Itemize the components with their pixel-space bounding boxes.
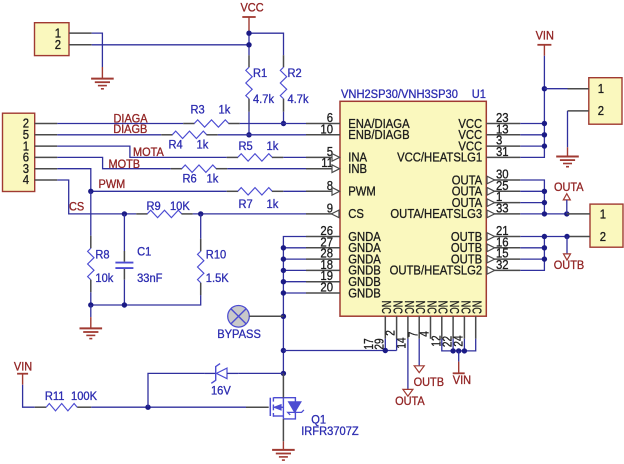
svg-text:16V: 16V	[211, 383, 232, 397]
svg-text:VIN: VIN	[453, 373, 471, 387]
J1 pin 2 stub	[69, 44, 92, 46]
wire PWM	[57, 169, 226, 192]
wire R11 to gate node	[91, 406, 246, 408]
svg-text:2: 2	[598, 103, 604, 118]
U1 NC pin stub 6	[441, 316, 443, 339]
svg-text:R1: R1	[253, 66, 267, 80]
resistor R11	[35, 406, 47, 408]
svg-text:OUTA: OUTA	[554, 180, 584, 194]
svg-text:CS: CS	[348, 206, 364, 221]
connector J1 (top-left 2-pin)	[35, 23, 70, 56]
resistor R10	[200, 239, 202, 252]
svg-text:GNDB: GNDB	[348, 285, 381, 300]
junction R1/DIAGB	[246, 132, 251, 137]
U1 NC pin stub 2	[396, 316, 398, 339]
BYPASS pin wire	[249, 315, 283, 317]
svg-text:33nF: 33nF	[137, 271, 162, 285]
U1 pin 30 OUTA	[486, 179, 520, 181]
junction GND bus/NC net	[281, 348, 286, 353]
junction OUTB flag	[564, 234, 569, 239]
resistor R8	[90, 236, 92, 249]
junction VCC bus	[542, 121, 547, 126]
VIN power flag (below U1)	[458, 362, 460, 374]
junction VCC/R2	[246, 31, 251, 36]
junction VCC bus	[542, 132, 547, 137]
svg-text:R8: R8	[95, 248, 109, 262]
junction NC22	[450, 348, 455, 353]
U1 pin 21 OUTB	[486, 236, 520, 238]
svg-text:R3: R3	[191, 102, 205, 116]
wire VCC pin branch	[520, 145, 544, 147]
Q1 source pin wire	[282, 419, 284, 441]
resistor R4	[161, 134, 172, 136]
U1 pin 15 OUTB	[486, 258, 520, 260]
svg-text:1: 1	[598, 81, 604, 96]
wire NC 17/29 net	[283, 350, 396, 352]
capacitor C1	[123, 251, 125, 262]
wire GND pin branch	[283, 269, 306, 271]
transistor Q1 IRFR3707Z	[246, 406, 269, 408]
resistor R3	[183, 123, 194, 125]
wire CS down to C1	[123, 214, 125, 251]
wire GND pin branch	[283, 247, 306, 249]
wire GND pin branch	[283, 258, 306, 260]
wire OUTB pin branch	[520, 258, 544, 260]
wire VCC down to R1	[248, 33, 250, 55]
U1 pin 11 INB	[306, 168, 340, 170]
U1 pin 31 VCC/HEATSLG1	[486, 156, 520, 158]
J2 pin stubs	[35, 123, 58, 125]
junction ground row/R8	[88, 302, 93, 307]
VCC flag wire (red)	[248, 17, 250, 33]
resistor R6	[171, 168, 182, 170]
wire CS down to R10	[200, 214, 202, 239]
diode D1 zener 16V	[204, 372, 215, 374]
wire OUTB row to J4 pin2	[520, 236, 567, 238]
resistor R2	[283, 55, 285, 67]
svg-text:R6: R6	[183, 172, 197, 186]
svg-text:R10: R10	[206, 248, 227, 262]
svg-text:OUTB: OUTB	[554, 258, 584, 272]
junction VIN branch	[456, 348, 461, 353]
U1 pin 19 GNDB	[306, 281, 340, 283]
junction GND bus/zener	[281, 371, 286, 376]
svg-text:1: 1	[600, 206, 606, 221]
svg-text:PWM: PWM	[348, 184, 376, 199]
U1 pin 16 OUTB	[486, 247, 520, 249]
junction NC24	[462, 348, 467, 353]
svg-text:1k: 1k	[219, 102, 232, 116]
J3 pin 1 stub	[568, 88, 589, 90]
U1 pin 32 OUTB/HEATSLG2	[486, 269, 520, 271]
U1 pin 13 VCC	[486, 134, 520, 136]
U1 NC pin stub 9	[475, 316, 477, 339]
junction OUTB bus top	[542, 234, 547, 239]
wire MOTB right	[227, 168, 306, 170]
junction OUTA bus	[542, 200, 547, 205]
junction OUTA flag	[564, 211, 569, 216]
svg-text:1k: 1k	[267, 197, 280, 211]
wire zener branch	[148, 373, 204, 407]
resistor R5	[227, 156, 238, 158]
ground GND1 wire (red)	[101, 67, 103, 79]
BYPASS via symbol	[228, 306, 250, 328]
U1 NC pin stub 3	[407, 316, 409, 339]
wire C1 bottom	[123, 280, 125, 305]
wire VCC bus	[520, 89, 544, 158]
wire VCC pin branch	[520, 123, 544, 125]
wire VIN down	[543, 56, 545, 89]
svg-text:R2: R2	[288, 66, 302, 80]
junction ground row/C1	[122, 302, 127, 307]
svg-text:1k: 1k	[207, 172, 220, 186]
svg-text:4.7k: 4.7k	[253, 92, 275, 106]
resistor R7	[227, 190, 238, 192]
wire DIAGB left	[57, 134, 161, 136]
U1 pin 28 GNDA	[306, 258, 340, 260]
svg-text:R9: R9	[147, 199, 161, 213]
wire DIAGA left	[57, 123, 183, 125]
svg-text:10: 10	[320, 121, 333, 136]
connector J2 (left 6-pin)	[3, 113, 35, 191]
svg-text:VCC: VCC	[241, 0, 264, 14]
svg-text:R5: R5	[239, 139, 253, 153]
junction OUTA bus	[542, 189, 547, 194]
wire OUTA pin branch	[520, 202, 544, 204]
U1 pin 27 GNDA	[306, 247, 340, 249]
ground GND2 wire	[567, 147, 569, 156]
svg-text:OUTB: OUTB	[414, 375, 444, 389]
U1 NC pin stub 8	[463, 316, 465, 339]
U1 NC pin stub 4	[418, 316, 420, 339]
U1 pin 3 VCC	[486, 145, 520, 147]
wire GND bus	[283, 237, 306, 374]
wire NC VIN net	[442, 339, 476, 351]
svg-text:1.5K: 1.5K	[206, 271, 229, 285]
svg-text:BYPASS: BYPASS	[217, 327, 261, 341]
ground GND1	[91, 78, 114, 80]
wire NC pin14 to OUTB flag	[418, 339, 420, 366]
U1 pin 33 OUTA/HEATSLG3	[486, 213, 520, 215]
junction GND bus	[281, 279, 286, 284]
svg-text:2: 2	[383, 330, 398, 336]
svg-text:2: 2	[600, 229, 606, 244]
J1 pin 1 stub	[69, 32, 92, 34]
wire R1 bottom to DIAGB row	[248, 112, 250, 135]
OUTA flag (below U1)	[403, 389, 413, 396]
svg-text:OUTB/HEATSLG2: OUTB/HEATSLG2	[390, 263, 483, 278]
wire R8 bottom	[90, 292, 92, 305]
svg-text:29: 29	[371, 338, 386, 349]
wire GND pin branch	[283, 281, 306, 283]
junction CS/R10	[198, 211, 203, 216]
ground GND2	[556, 156, 579, 158]
svg-text:100K: 100K	[71, 389, 97, 403]
U1 pin 9 CS	[306, 213, 340, 215]
svg-text:R11: R11	[45, 389, 65, 403]
wire VIN to J3 pin1	[544, 88, 567, 90]
svg-text:C1: C1	[137, 245, 151, 259]
svg-text:CS: CS	[69, 199, 84, 213]
wire VCC pin branch	[520, 134, 544, 136]
svg-text:4: 4	[23, 172, 29, 187]
junction R2/DIAGA	[281, 121, 286, 126]
U1 pin 25 OUTA	[486, 190, 520, 192]
junction NC17	[383, 348, 388, 353]
junction zener/gate	[145, 405, 150, 410]
svg-text:OUTA: OUTA	[395, 394, 425, 408]
junction CS/C1	[122, 211, 127, 216]
OUTB flag (below U1)	[414, 366, 424, 373]
U1 NC pin stub 7	[452, 316, 454, 339]
wire OUTB pin branch	[520, 247, 544, 249]
svg-text:INB: INB	[348, 161, 367, 176]
svg-text:VIN: VIN	[536, 29, 554, 43]
junction VIN node	[542, 86, 547, 91]
Q1 drain pin wire	[282, 373, 284, 397]
wire J1 pin2 to VCC node	[92, 44, 249, 46]
ground GND4 wire	[282, 441, 284, 450]
wire PWM down to R8	[90, 191, 92, 235]
J3 pin 2 stub	[568, 110, 589, 112]
wire DIAGB right	[218, 134, 306, 136]
junction VCC bus	[542, 143, 547, 148]
wire PWM right	[283, 190, 306, 192]
U1 pin 23 VCC	[486, 123, 520, 125]
svg-text:20: 20	[320, 280, 333, 295]
resistor R1	[248, 55, 250, 67]
svg-text:14: 14	[393, 337, 408, 348]
U1 pin 1 OUTA	[486, 202, 520, 204]
U1 pin 5 INA	[306, 156, 340, 158]
wire J1 pin1 to ground	[92, 33, 103, 67]
wire CS right	[193, 213, 306, 215]
U1 pin 6 ENA/DIAGA	[306, 123, 340, 125]
ground GND3 wire	[90, 305, 92, 317]
wire MOTA	[57, 146, 226, 157]
U1 pin 20 GNDB	[306, 292, 340, 294]
junction OUTA bus bottom	[542, 211, 547, 216]
svg-text:PWM: PWM	[99, 177, 126, 191]
junction PWM/R8	[88, 189, 93, 194]
junction GND bus	[281, 256, 286, 261]
IC U1 VNH2SP30/VNH3SP30 body	[340, 101, 486, 316]
U1 pin 26 GNDA	[306, 236, 340, 238]
svg-text:DIAGB: DIAGB	[113, 122, 147, 136]
wire OUTA bus	[520, 180, 544, 214]
junction pin2 net	[246, 42, 251, 47]
U1 pin 18 GNDB	[306, 269, 340, 271]
junction GND bus/BYPASS	[281, 314, 286, 319]
wire VIN branch	[458, 351, 460, 362]
svg-text:NC: NC	[470, 301, 485, 314]
U1 NC pin stub 5	[430, 316, 432, 339]
svg-text:U1: U1	[472, 87, 486, 101]
svg-text:1k: 1k	[267, 139, 280, 153]
svg-text:VCC/HEATSLG1: VCC/HEATSLG1	[397, 150, 482, 165]
U1 pin 8 PWM	[306, 190, 340, 192]
svg-text:ENB/DIAGB: ENB/DIAGB	[348, 127, 409, 142]
svg-text:R7: R7	[239, 197, 253, 211]
J4 pin 1 stub	[567, 213, 590, 215]
svg-text:1k: 1k	[197, 138, 210, 152]
junction OUTB bus	[542, 256, 547, 261]
J4 pin 2 stub	[567, 236, 590, 238]
wire VCC rail	[249, 33, 284, 55]
svg-text:4.7k: 4.7k	[288, 92, 310, 106]
wire OUTA row to J4 pin1	[520, 213, 567, 215]
wire J3 pin2 to ground	[567, 111, 569, 147]
OUTB flag (right)	[566, 237, 568, 254]
wire R10 bottom to ground row	[91, 295, 201, 305]
wire MOTA right	[283, 156, 306, 158]
wire CS	[57, 180, 136, 214]
junction GND bus	[281, 290, 286, 295]
wire NC pin2 to OUTA flag	[407, 339, 409, 390]
svg-text:VIN: VIN	[14, 360, 32, 374]
wire OUTA pin branch	[520, 190, 544, 192]
svg-text:11: 11	[321, 155, 333, 170]
wire DIAGA right	[240, 123, 306, 125]
ground GND4	[272, 449, 295, 451]
connector J4 (bottom-right 2-pin)	[590, 204, 623, 247]
svg-text:IRFR3707Z: IRFR3707Z	[301, 424, 359, 438]
junction GND bus	[281, 268, 286, 273]
ground GND3	[80, 327, 103, 329]
svg-text:R4: R4	[169, 138, 183, 152]
resistor R9	[136, 213, 147, 215]
svg-text:VNH2SP30/VNH3SP30: VNH2SP30/VNH3SP30	[341, 87, 458, 101]
junction OUTB bus	[542, 245, 547, 250]
svg-text:10K: 10K	[170, 199, 190, 213]
wire R2 bottom to DIAGA row	[283, 112, 285, 124]
U1 NC pin stub 1	[384, 316, 386, 339]
wire GND pin branch	[283, 292, 306, 294]
wire zener to GND bus	[238, 372, 283, 374]
wire MOTB	[57, 157, 170, 168]
U1 pin 10 ENB/DIAGB	[306, 134, 340, 136]
svg-text:10k: 10k	[95, 271, 114, 285]
connector J3 (top-right 2-pin)	[589, 78, 622, 125]
svg-text:OUTA/HEATSLG3: OUTA/HEATSLG3	[390, 206, 482, 221]
junction GND bus	[281, 245, 286, 250]
wire OUTB bus	[520, 237, 544, 271]
svg-text:2: 2	[55, 37, 61, 52]
svg-text:33: 33	[496, 200, 509, 215]
wire VIN to R11	[23, 385, 35, 408]
svg-text:31: 31	[496, 144, 509, 159]
svg-text:32: 32	[496, 257, 509, 272]
